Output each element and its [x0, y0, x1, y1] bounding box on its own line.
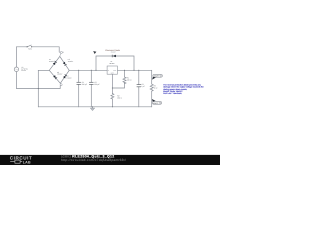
svg-text:OUT: OUT [113, 70, 116, 72]
svg-text:180 Ω: 180 Ω [117, 96, 122, 99]
svg-text:VOUT+: VOUT+ [154, 75, 160, 78]
svg-text:Precision Diode: Precision Diode [105, 49, 120, 52]
svg-text:820 µF: 820 µF [94, 83, 99, 86]
svg-text:1 µF: 1 µF [141, 85, 144, 88]
svg-text:60 Hz: 60 Hz [21, 69, 26, 72]
svg-text:GND: GND [111, 73, 114, 75]
svg-text:VOUT-: VOUT- [153, 102, 159, 105]
svg-text:2: 2 [63, 51, 64, 54]
svg-text:IN: IN [108, 70, 109, 72]
svg-text:http://circuitlab.com/c7dq54w8: http://circuitlab.com/c7dq54w8pamr63t/ [61, 158, 126, 162]
svg-text:Ref: Lab 7 Handouts: Ref: Lab 7 Handouts [163, 92, 181, 95]
svg-text:SW1: SW1 [28, 48, 32, 51]
svg-text:240 Ω: 240 Ω [127, 78, 132, 81]
svg-text:LAB: LAB [23, 160, 31, 164]
svg-text:560 µF: 560 µF [82, 83, 87, 86]
